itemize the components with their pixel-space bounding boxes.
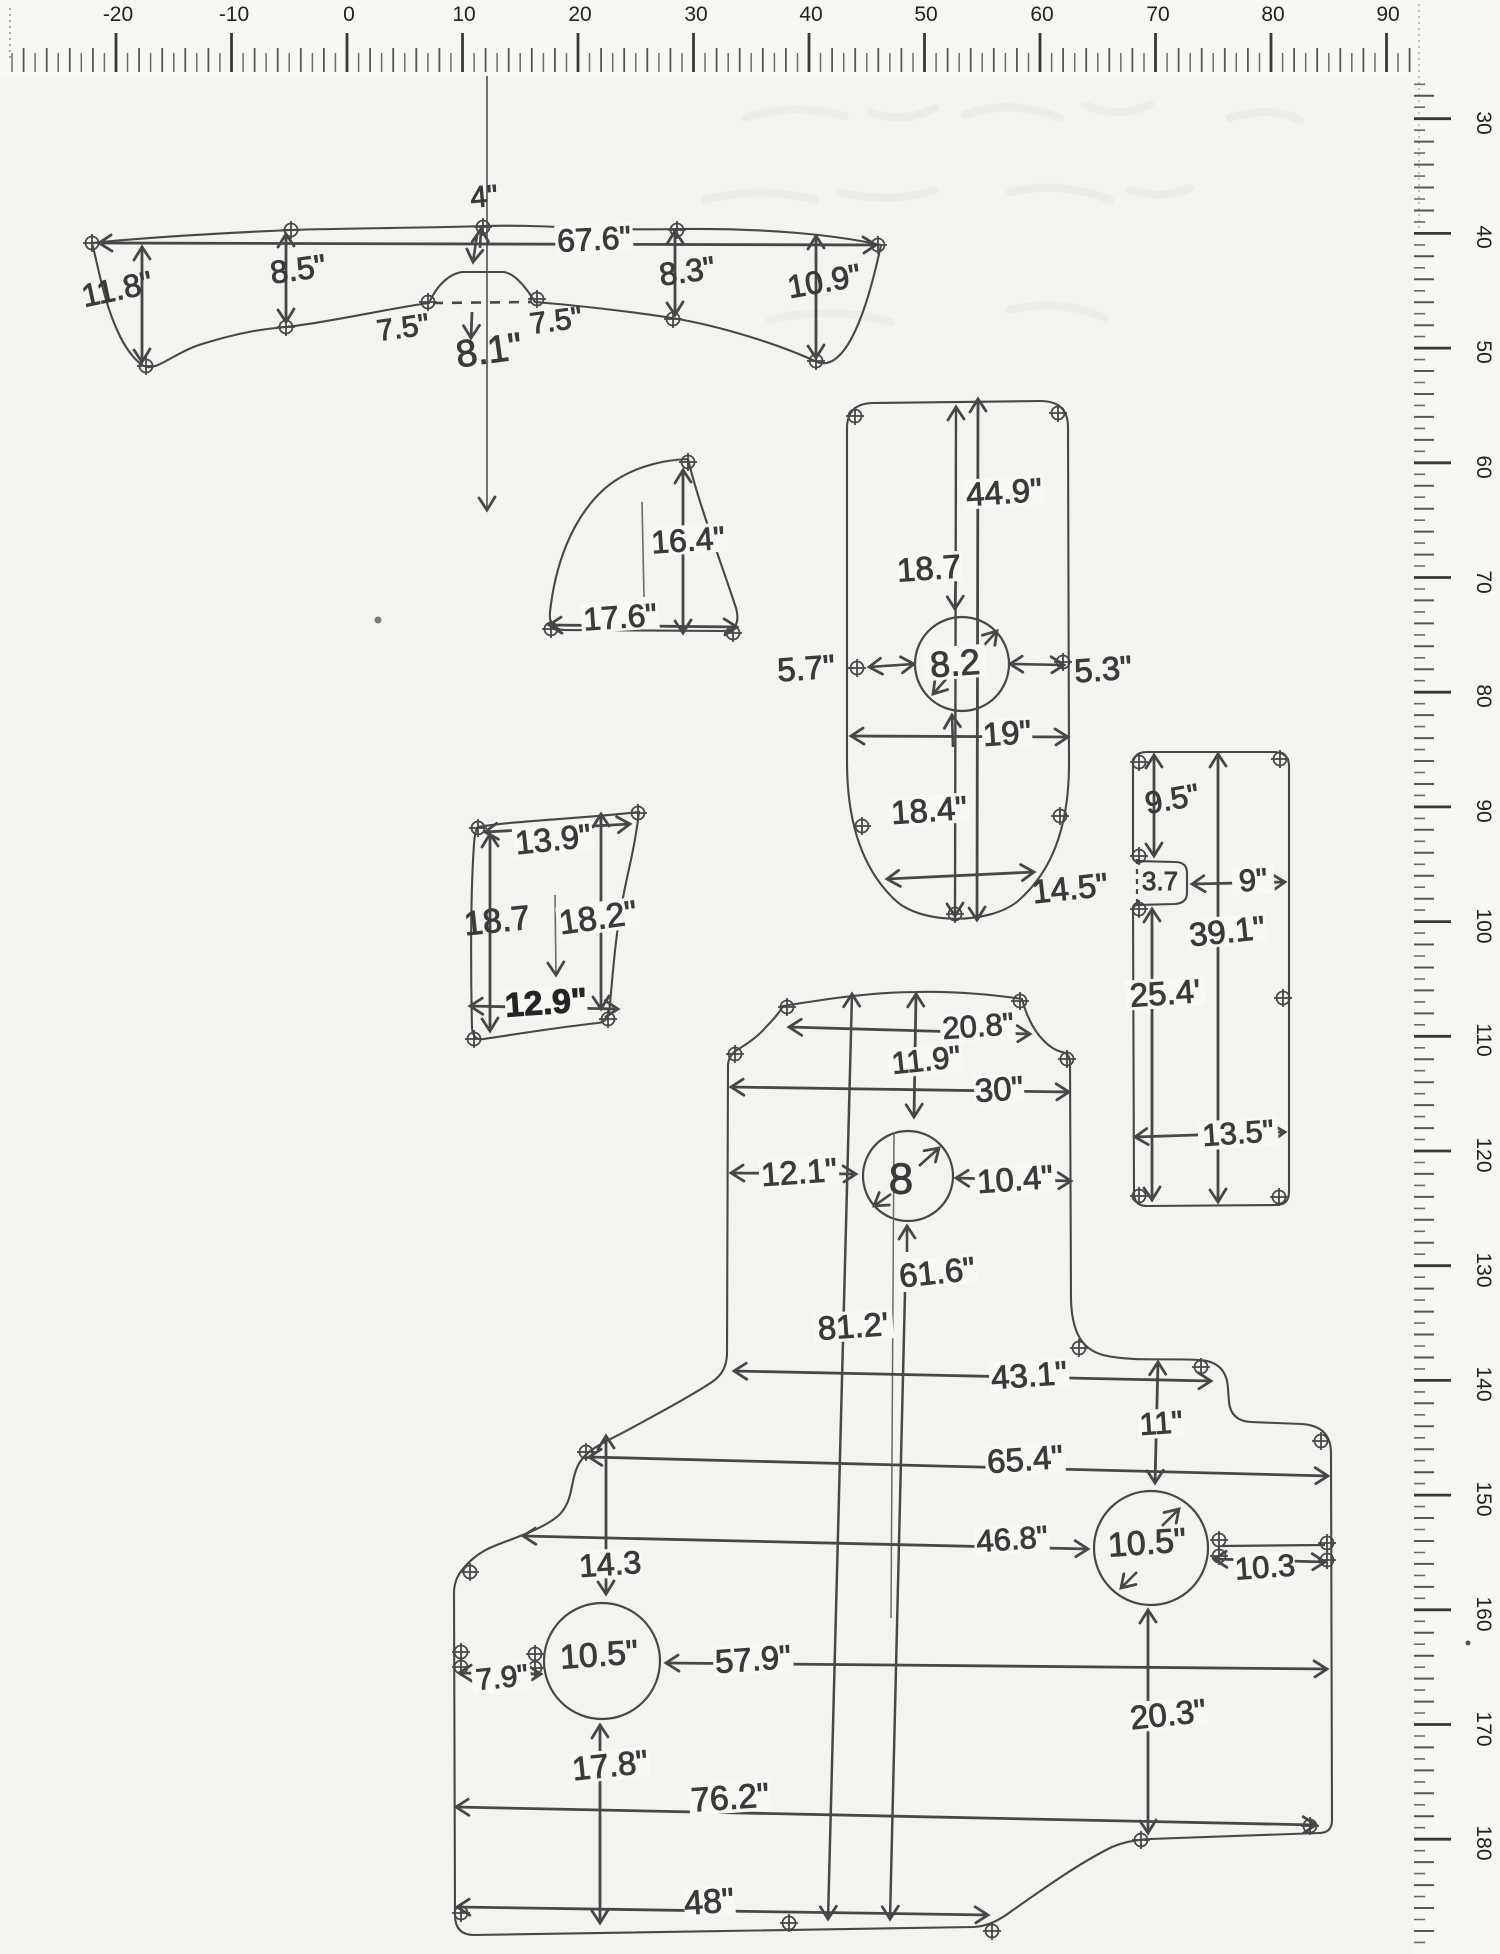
labels piece 4 xyxy=(512,820,595,858)
dim 25.4 arrow xyxy=(1151,909,1154,1200)
svg-text:3.7: 3.7 xyxy=(1142,866,1178,896)
svg-text:39.1": 39.1" xyxy=(1187,909,1266,954)
svg-text:11": 11" xyxy=(1138,1404,1184,1442)
arrow to circle top (18.7) xyxy=(955,560,956,609)
svg-text:50: 50 xyxy=(1472,340,1495,363)
dim 13.9" arrow xyxy=(485,824,630,832)
svg-text:44.9": 44.9" xyxy=(965,471,1043,513)
svg-text:40: 40 xyxy=(799,3,822,26)
svg-text:170: 170 xyxy=(1472,1711,1495,1746)
dim 7.9" arrow xyxy=(459,1673,541,1674)
dim 20.3" arrow xyxy=(1147,1610,1150,1833)
svg-text:100: 100 xyxy=(1472,908,1495,943)
svg-text:18.4": 18.4" xyxy=(890,789,968,831)
dim 17.8" arrow xyxy=(599,1725,602,1923)
svg-text:10.3: 10.3 xyxy=(1234,1547,1297,1586)
labels piece 3 xyxy=(963,474,1045,510)
light pencil line inside piece 4 xyxy=(555,895,556,975)
dim 9" arrow xyxy=(1192,882,1285,884)
labels piece 6 xyxy=(939,1009,1016,1043)
faint bleed-through ghost strokes xyxy=(705,104,1300,322)
svg-text:18.7: 18.7 xyxy=(896,547,963,588)
dim 8.1" down arrow xyxy=(471,312,472,338)
svg-text:17.6": 17.6" xyxy=(582,596,658,637)
svg-text:180: 180 xyxy=(1472,1825,1495,1860)
dim 67.6" line xyxy=(99,243,876,245)
svg-text:130: 130 xyxy=(1472,1252,1495,1287)
dim 18.7 / 18.4 line xyxy=(955,407,956,916)
svg-text:20.3": 20.3" xyxy=(1128,1692,1207,1737)
light pencil line inside piece 2 xyxy=(642,502,644,597)
dim 30" arrow xyxy=(731,1087,1069,1092)
svg-text:150: 150 xyxy=(1472,1481,1495,1516)
dim 11.8" arrow xyxy=(141,247,144,362)
dim 76.2" arrow xyxy=(456,1807,1316,1825)
labels piece 2 xyxy=(648,522,728,556)
registration marks piece 1 xyxy=(83,234,101,252)
dim 61.6" long line down xyxy=(890,1292,905,1919)
small arrow inside circle 8.2 xyxy=(977,631,997,653)
svg-text:160: 160 xyxy=(1472,1596,1495,1631)
line between registration pairs right xyxy=(1222,1545,1325,1546)
svg-text:14.5": 14.5" xyxy=(1030,866,1109,911)
small arrows inside right circle 10.5 xyxy=(1162,1509,1179,1526)
dim 13.5" arrow xyxy=(1135,1132,1285,1137)
dim 65.4" arrow xyxy=(589,1457,1328,1476)
svg-text:13.9": 13.9" xyxy=(513,817,592,862)
svg-text:30: 30 xyxy=(1472,111,1495,134)
svg-text:25.4': 25.4' xyxy=(1129,972,1202,1014)
arrow to circle bottom (18.4) xyxy=(952,715,953,747)
thin pencil line through circle 8 xyxy=(891,1132,894,1618)
dashed notch line xyxy=(1136,859,1138,906)
dim 5.3" arrow xyxy=(1010,664,1064,665)
svg-text:110: 110 xyxy=(1472,1023,1495,1056)
svg-text:-10: -10 xyxy=(219,3,249,26)
template piece 6 (large cockpit pad) outline xyxy=(454,992,1332,1935)
dashed line across bow hump xyxy=(433,302,531,303)
dim 57.9" arrow xyxy=(666,1663,1327,1669)
stray pencil speck xyxy=(375,617,382,624)
hole circle right 10.5" xyxy=(1094,1491,1208,1605)
dim 43.1" arrow xyxy=(734,1371,1211,1381)
dim 11.9" arrow xyxy=(914,994,916,1117)
hole circle left 10.5" xyxy=(544,1603,660,1719)
svg-text:81.2': 81.2' xyxy=(817,1305,890,1347)
long vertical construction line with arrow xyxy=(486,76,488,510)
registration marks piece 5 xyxy=(1130,753,1148,771)
svg-text:13.5": 13.5" xyxy=(1201,1113,1275,1153)
svg-text:46.8": 46.8" xyxy=(975,1519,1049,1559)
registration marks piece 2 xyxy=(679,453,697,471)
dim 61.6" arrow up to circle xyxy=(906,1226,909,1252)
template piece 2 (quarter round pad) outline xyxy=(550,459,738,631)
svg-text:60: 60 xyxy=(1030,3,1053,26)
svg-text:70: 70 xyxy=(1146,3,1169,26)
dim 10.3 arrow xyxy=(1214,1559,1325,1562)
dim 39.1" arrow xyxy=(1217,754,1220,1202)
dim 44.9" full-length arrow xyxy=(977,399,978,920)
svg-text:14.3: 14.3 xyxy=(578,1544,643,1584)
hole circle 8.2" xyxy=(915,617,1009,711)
dim 20.8" arrow xyxy=(789,1027,1030,1034)
svg-text:10.5": 10.5" xyxy=(1107,1521,1188,1564)
dim 14.5" arrow xyxy=(887,872,1034,879)
dim 9.5" arrow xyxy=(1153,755,1156,856)
scan edge artifact top-left xyxy=(9,8,11,62)
svg-text:40: 40 xyxy=(1472,225,1495,248)
dim 48" arrow xyxy=(457,1907,988,1915)
svg-text:8.2: 8.2 xyxy=(929,641,982,685)
registration marks piece 6 xyxy=(778,998,796,1016)
dim 12.9" arrow xyxy=(470,1006,618,1009)
svg-text:11.9": 11.9" xyxy=(890,1039,962,1081)
dim 16.4" arrow xyxy=(682,470,685,633)
svg-text:57.9": 57.9" xyxy=(714,1638,792,1680)
template piece 1 (bow pad) outline xyxy=(92,226,881,368)
svg-text:18.7: 18.7 xyxy=(462,899,532,944)
dim 18.7 arrow xyxy=(489,834,492,1031)
svg-text:17.8": 17.8" xyxy=(570,1743,649,1788)
top horizontal ruler ticks xyxy=(116,33,1387,72)
dim 17.6" arrow xyxy=(549,625,737,627)
svg-text:67.6": 67.6" xyxy=(556,219,631,259)
svg-text:12.1": 12.1" xyxy=(760,1151,838,1193)
dim 11" arrow xyxy=(1155,1362,1158,1483)
svg-text:61.6": 61.6" xyxy=(897,1250,976,1295)
dim 18.2" arrow xyxy=(600,814,603,1009)
svg-text:-20: -20 xyxy=(103,3,133,26)
svg-text:12.9": 12.9" xyxy=(504,981,589,1025)
svg-text:60: 60 xyxy=(1472,455,1495,478)
right vertical ruler ticks xyxy=(1414,119,1451,1840)
dim 8.5" arrow xyxy=(285,234,288,322)
template piece 3 (long rounded pad) outline xyxy=(847,401,1069,919)
registration marks piece 3 xyxy=(846,407,864,425)
svg-text:90: 90 xyxy=(1472,799,1495,822)
svg-text:80: 80 xyxy=(1472,684,1495,707)
svg-text:5.3": 5.3" xyxy=(1073,649,1133,690)
dim 14.3 arrow xyxy=(605,1436,608,1594)
svg-text:48": 48" xyxy=(683,1881,735,1922)
svg-text:90: 90 xyxy=(1376,3,1399,26)
svg-text:50: 50 xyxy=(914,3,937,26)
hole circle 8" xyxy=(863,1131,953,1221)
svg-text:70: 70 xyxy=(1472,570,1495,593)
dim 10.4" arrow xyxy=(956,1178,1071,1181)
svg-text:8.5": 8.5" xyxy=(268,247,328,290)
svg-text:0: 0 xyxy=(343,3,355,26)
dim 19" arrow xyxy=(851,736,1068,737)
svg-text:80: 80 xyxy=(1261,3,1284,26)
svg-text:5.7": 5.7" xyxy=(776,648,836,689)
registration marks piece 4 xyxy=(469,819,487,837)
dim 46.8" arrow xyxy=(523,1536,1088,1549)
dim 4" arrow xyxy=(480,229,481,248)
small arrow inside circle 8 xyxy=(919,1148,939,1166)
svg-text:8.3": 8.3" xyxy=(657,249,717,292)
dim 10.9" arrow xyxy=(815,236,818,358)
svg-text:140: 140 xyxy=(1472,1366,1495,1401)
svg-text:4": 4" xyxy=(469,179,499,214)
svg-text:76.2": 76.2" xyxy=(690,1776,771,1819)
svg-text:120: 120 xyxy=(1472,1137,1495,1172)
svg-text:10.5": 10.5" xyxy=(559,1633,640,1676)
svg-text:20: 20 xyxy=(568,3,591,26)
svg-text:10: 10 xyxy=(452,3,475,26)
dim 5.7" arrow xyxy=(869,664,914,667)
scan edge artifact top-right xyxy=(1418,4,1420,228)
svg-text:9": 9" xyxy=(1238,862,1269,899)
dim 81.2 long line xyxy=(828,994,852,1919)
svg-text:7.9": 7.9" xyxy=(474,1659,530,1697)
svg-text:30": 30" xyxy=(974,1069,1025,1109)
svg-text:43.1": 43.1" xyxy=(990,1354,1068,1396)
template piece 5 (tall rectangle with notch) outline xyxy=(1133,752,1289,1206)
svg-text:16.4": 16.4" xyxy=(650,519,726,560)
template piece 4 (small warped rectangle) outline xyxy=(471,812,639,1039)
svg-text:8: 8 xyxy=(889,1155,913,1204)
svg-text:30: 30 xyxy=(684,3,707,26)
dim 12.1" arrow xyxy=(731,1173,856,1174)
svg-text:10.4": 10.4" xyxy=(976,1158,1054,1200)
svg-text:19": 19" xyxy=(982,713,1033,753)
svg-text:65.4": 65.4" xyxy=(986,1438,1064,1480)
dim 8.3" arrow xyxy=(674,231,677,315)
